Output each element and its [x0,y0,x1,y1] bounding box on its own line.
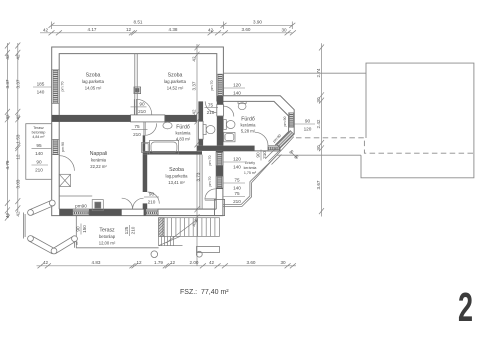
svg-text:FSZ.: 77,40 m²: FSZ.: 77,40 m² [180,289,229,296]
wall lintel box over hall doors [131,105,225,216]
svg-text:3.03: 3.03 [15,179,20,188]
svg-text:75: 75 [234,191,240,196]
label door fürdő-left 75/210 [132,124,148,137]
door hall to szoba2 90/210 [134,99,136,115]
svg-text:90: 90 [36,160,42,165]
toilet wc room [203,125,206,135]
room szoba2 label [164,73,187,91]
stair arrow [166,220,197,244]
door hall to fürdő-left 75/210 [144,122,145,135]
door wc 75/210 [205,101,216,112]
svg-text:30: 30 [281,27,287,32]
wall south hollow band at stairs [158,209,214,216]
wall south band [59,209,73,216]
label door bay south 90/210 rotated [256,150,268,161]
toilet fürdő-right [223,120,226,130]
svg-text:42: 42 [15,211,20,217]
svg-text:140: 140 [233,91,241,96]
svg-text:22,22 m²: 22,22 m² [90,164,107,169]
dimension right column [319,43,324,216]
svg-text:210: 210 [35,168,43,173]
dimension text right column (rotated) [316,68,321,189]
wall lintel wc west [198,121,203,139]
stair treads [163,218,215,237]
svg-text:pm:70: pm:70 [208,177,212,187]
porch bar lower-right [53,236,76,253]
wall inner bay [217,101,289,145]
wing connector lower line [277,154,361,156]
svg-text:pm:70: pm:70 [61,82,65,92]
wall fürdő-left west (thin) [143,135,146,151]
porch post 5 [49,200,55,206]
svg-text:1,75 m²: 1,75 m² [244,171,257,175]
svg-text:42: 42 [192,109,197,115]
balcony parapet outer [223,137,294,207]
dimension left column 1 [5,43,10,221]
dimension interior column [195,44,200,266]
porch west edge [23,213,25,239]
svg-text:12: 12 [15,154,20,160]
nappali inner south line [59,195,92,197]
svg-text:90: 90 [149,192,155,197]
svg-text:8.51: 8.51 [134,20,143,25]
svg-text:120: 120 [233,157,241,162]
dashed upper outline [296,138,474,153]
window étkező 120/140 [217,152,221,165]
svg-text:12: 12 [126,27,132,32]
label window étkező 125/140 [223,157,245,170]
pillar south with core [92,200,103,211]
wall inner east lower [215,151,217,209]
svg-text:3.90: 3.90 [253,20,262,25]
svg-text:4,84 m²: 4,84 m² [32,135,45,139]
svg-text:120: 120 [304,127,312,132]
wall main east-west (szoba1/2 vs lower) [59,115,130,122]
wall outer boundary [52,47,295,216]
label french door 125/210 rotated [124,225,136,236]
wall szoba3 north [147,151,202,154]
svg-text:210: 210 [207,110,215,115]
room szoba1 label [82,73,105,91]
dimension top row 1 [49,22,296,30]
svg-text:42: 42 [5,114,10,120]
room szoba3 label [166,167,189,185]
svg-text:30: 30 [316,97,321,103]
svg-text:betonlap: betonlap [99,234,116,239]
svg-text:betonlap: betonlap [32,131,46,135]
wing connector eaves line [223,72,366,74]
door bay south into fürdő-right 90/210 [255,132,268,145]
svg-text:140: 140 [233,186,241,191]
label window étkező 75/140 [223,178,245,191]
threshold bay south pm:90 [268,147,279,150]
porch bar lower-left [29,236,54,254]
window E szoba2 120/140 [218,74,222,96]
terrace west small outline [26,124,52,180]
svg-text:14,52 m²: 14,52 m² [167,86,184,91]
svg-text:Terasz: Terasz [33,126,44,130]
svg-text:185: 185 [37,82,45,87]
svg-text:42: 42 [5,213,10,219]
svg-text:kerámia: kerámia [176,131,192,136]
svg-text:95: 95 [36,143,42,148]
svg-text:120: 120 [233,83,241,88]
svg-text:75: 75 [134,124,140,129]
door west into nappali 90/210 [60,156,75,171]
french door south right leaf 125/210 [133,198,144,209]
svg-text:3.37: 3.37 [192,81,197,90]
partition szoba1/szoba2 (thin) [135,54,202,210]
svg-text:Erkély: Erkély [245,161,255,165]
wall inner boundary north rooms [59,54,217,115]
svg-text:2.00: 2.00 [190,260,199,265]
dimension bottom row [37,263,297,268]
bench by stairs [197,247,220,253]
svg-text:12: 12 [136,260,142,265]
wall inner west lower [58,115,60,209]
window bay east 90/120 [289,113,293,127]
svg-text:75: 75 [208,102,214,107]
svg-text:210: 210 [138,109,146,114]
svg-text:3.60: 3.60 [242,27,251,32]
fireplace nappali (crossed square) [59,174,70,186]
porch post 3 [51,248,57,254]
stair outline [159,218,220,237]
sink fürdő-left [163,122,172,129]
door south to stairs 90/210 [148,192,160,204]
svg-text:42: 42 [209,260,215,265]
column stairs base [151,251,158,258]
svg-text:42: 42 [43,27,49,32]
washing machine [142,143,150,153]
threshold south door 90 [146,212,158,215]
door fürdő-right 75/210 [223,106,233,116]
label door étkező 75/210 [223,191,245,204]
svg-text:42: 42 [5,54,10,60]
threshold south pm90 [73,212,89,215]
wall wc east / fürdő-right west segments [217,96,224,105]
balcony steps [266,149,282,165]
wall junction szoba3 NW [143,151,148,154]
svg-text:Szoba: Szoba [86,73,101,79]
wall inner south [59,208,216,210]
svg-text:12: 12 [170,260,176,265]
window bay chamfer 90/90 (diagonal) [277,131,294,148]
bathtub fürdő-left [149,141,178,155]
svg-text:4,83 m²: 4,83 m² [176,137,191,142]
shower tray fürdő-right [224,132,235,141]
room erkély label [244,161,257,175]
svg-text:30: 30 [316,145,321,151]
label door W 90/210 [32,160,49,173]
sink fürdő-right north [238,101,246,103]
porch post 4 [72,236,78,242]
svg-text:lag.parketta: lag.parketta [82,79,105,84]
svg-text:140: 140 [233,165,241,170]
label window 95/140 [32,143,52,156]
label door wc 75/210 [205,102,219,115]
svg-text:Nappali: Nappali [90,151,108,157]
svg-text:42: 42 [208,27,214,32]
svg-text:kerámia: kerámia [244,166,257,170]
svg-text:90: 90 [139,101,145,106]
svg-text:pm:70: pm:70 [208,156,212,166]
svg-text:lag.parketta: lag.parketta [166,174,189,179]
svg-text:Szoba: Szoba [168,73,183,79]
svg-text:210: 210 [262,151,267,159]
svg-text:3.60: 3.60 [247,260,256,265]
svg-text:125: 125 [124,226,129,234]
french door south left leaf 125/210 [122,198,133,209]
dimension text bottom row [43,260,286,265]
svg-text:1.79: 1.79 [154,260,163,265]
svg-text:kerámia: kerámia [241,123,257,128]
svg-text:14,05 m²: 14,05 m² [85,86,102,91]
svg-text:lag.parketta: lag.parketta [164,79,187,84]
chimney flue on partition [134,87,141,94]
svg-text:42: 42 [192,56,197,62]
svg-text:3.37: 3.37 [15,79,20,88]
porch bar upper [29,200,53,215]
dimension text interior column (rotated) [192,56,201,227]
window W 95/140 [53,140,58,155]
svg-text:5,28 m²: 5,28 m² [241,129,256,134]
svg-text:pm90: pm90 [75,204,87,209]
svg-text:Terasz: Terasz [99,228,115,234]
svg-text:1.53: 1.53 [15,134,20,143]
balcony parapet inner [223,156,276,205]
wall nappali east [143,155,148,192]
svg-text:75: 75 [234,178,240,183]
room fürdő-right label [241,117,257,134]
svg-text:90: 90 [76,226,81,232]
svg-text:4.17: 4.17 [88,27,97,32]
svg-text:42: 42 [43,260,49,265]
room nappali label [90,151,108,169]
dimension text left columns (rotated) [5,54,20,218]
svg-text:90: 90 [305,119,311,124]
porch post 1 [28,210,34,216]
label terrace door 90/150 rotated [76,224,88,235]
wall lintel fürdő-right door [217,105,224,117]
room terasz west label [32,126,46,139]
wing outline [361,63,474,178]
door étkező to balcony 75/210 [205,199,216,200]
svg-text:4.38: 4.38 [169,27,178,32]
porch post 2 [28,236,34,242]
room fürdő-left label [176,125,192,142]
svg-text:210: 210 [131,226,136,234]
partition szoba3 east (thin) [199,155,201,210]
svg-text:140: 140 [37,90,45,95]
wall corner hollow box SE [214,199,224,215]
svg-text:42: 42 [15,114,20,120]
dimension text top rows [43,20,287,33]
svg-text:3.67: 3.67 [316,180,321,189]
window étkező 75/140 [217,176,221,188]
wall wc west segments [198,101,203,121]
label window 90/90 chamfer rotated diagonal [289,149,300,160]
label stairs door 90/210 [144,192,159,205]
svg-text:210: 210 [133,132,141,137]
label window szoba2E 120/140 [223,83,245,96]
label window 185/140 [33,82,52,95]
dimension left column 2 [15,43,20,213]
svg-text:3.37: 3.37 [5,79,10,88]
terrace main outline [76,216,158,248]
stair entry hatch [159,218,165,237]
svg-text:210: 210 [233,199,241,204]
svg-text:pm:70: pm:70 [210,81,214,91]
svg-text:2.42: 2.42 [316,119,321,128]
svg-text:pm:90: pm:90 [283,117,287,127]
wall étkező east segments [216,151,223,153]
porch link to terrace corner [75,242,78,248]
svg-text:4.83: 4.83 [92,260,101,265]
svg-text:Szoba: Szoba [169,167,184,173]
svg-text:13,41 m²: 13,41 m² [168,180,185,185]
label door szoba2 90/210 [131,101,147,114]
svg-text:kerámia: kerámia [91,158,107,163]
wall west junction at hall wall [52,115,60,122]
svg-text:12,00 m²: 12,00 m² [99,241,116,246]
label window bayE 90/120 [294,119,315,132]
wall fürdő-right south / étkező north [197,146,255,151]
svg-text:150: 150 [82,225,87,233]
stair winder [159,236,183,245]
svg-text:30: 30 [280,260,286,265]
window W 185/140 [53,70,58,104]
svg-text:140: 140 [35,151,43,156]
svg-text:pm:90: pm:90 [61,142,65,152]
room terasz main label [99,228,116,246]
svg-text:2: 2 [458,284,473,330]
svg-text:4.78: 4.78 [5,160,10,169]
svg-text:42: 42 [15,54,20,60]
svg-text:210: 210 [148,200,156,205]
svg-text:90: 90 [256,152,261,158]
dimension top row 2 [40,30,296,35]
